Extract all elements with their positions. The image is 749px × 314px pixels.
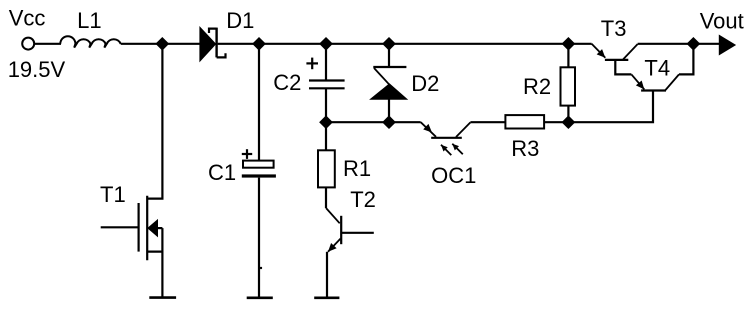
node Vout junction — [688, 39, 699, 50]
terminal Vcc — [22, 38, 34, 50]
ground T1 — [149, 296, 176, 299]
wire D2 top — [388, 44, 390, 67]
zener diode D2 — [372, 67, 406, 99]
ground T2 — [314, 296, 339, 299]
wire — [568, 43, 591, 45]
wire — [544, 121, 568, 123]
resistor R3 — [505, 115, 544, 128]
svg-text:D1: D1 — [226, 8, 254, 33]
svg-text:T1: T1 — [100, 182, 126, 207]
wire R1 top — [325, 122, 327, 150]
inductor L1 — [60, 36, 120, 47]
wire — [389, 43, 568, 45]
svg-text:R3: R3 — [511, 136, 539, 161]
wire — [470, 121, 505, 123]
wire — [258, 178, 260, 297]
wire lower rail — [326, 121, 389, 123]
node D2/OC1 junction — [384, 117, 395, 128]
wire — [389, 121, 421, 123]
capacitor C1 — [242, 149, 276, 177]
svg-text:Vcc: Vcc — [9, 6, 46, 31]
svg-text:OC1: OC1 — [431, 163, 476, 188]
diode D1 — [201, 28, 226, 60]
wire — [34, 43, 61, 45]
node C2 junction — [321, 39, 332, 50]
wire — [638, 43, 694, 45]
transistor T4 — [631, 44, 693, 91]
svg-text:Vout: Vout — [700, 9, 744, 34]
transistor T3 — [592, 44, 638, 75]
wire — [121, 43, 201, 45]
wire T4 base — [568, 91, 653, 122]
wire — [693, 43, 720, 45]
resistor R2 — [561, 44, 576, 122]
transistor T2 — [326, 208, 374, 252]
svg-text:R1: R1 — [343, 156, 371, 181]
node C1 junction — [254, 39, 265, 50]
wire — [326, 43, 389, 45]
node L1/D1/T1 junction — [157, 39, 168, 50]
wire — [325, 187, 327, 208]
svg-text:L1: L1 — [77, 8, 101, 33]
wire — [388, 99, 390, 123]
svg-text:T2: T2 — [350, 187, 376, 212]
wire C1 top — [258, 44, 260, 161]
output arrow Vout — [720, 37, 734, 54]
svg-text:C1: C1 — [208, 160, 236, 185]
wire — [218, 43, 259, 45]
node R2/T3 junction — [563, 39, 574, 50]
wire — [326, 252, 328, 297]
wire — [325, 88, 327, 122]
wire C2 top — [325, 44, 327, 81]
transistor T1 (MOSFET) — [101, 44, 163, 297]
svg-text:D2: D2 — [411, 71, 439, 96]
optocoupler OC1 — [421, 122, 471, 155]
stray dot — [260, 267, 262, 269]
svg-text:19.5V: 19.5V — [8, 57, 66, 82]
svg-text:T3: T3 — [601, 16, 627, 41]
resistor R1 — [318, 150, 335, 187]
node D2 junction — [384, 39, 395, 50]
svg-text:R2: R2 — [523, 74, 551, 99]
svg-text:T4: T4 — [644, 56, 670, 81]
capacitor C2 — [306, 58, 344, 89]
svg-text:C2: C2 — [273, 70, 301, 95]
ground C1 — [247, 296, 273, 299]
node C2/R1 junction — [321, 117, 332, 128]
wire — [259, 43, 326, 45]
node R3/R2/T4 junction — [563, 117, 574, 128]
